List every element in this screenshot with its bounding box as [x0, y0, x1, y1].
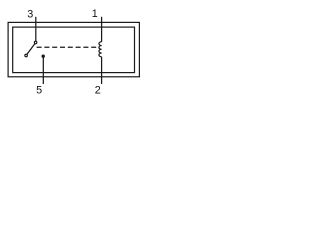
svg-text:5: 5: [36, 84, 42, 96]
actuator dashed link: [37, 46, 99, 48]
coil K1: [99, 42, 102, 57]
switch armature blade: [27, 44, 35, 55]
wire pin 2 lead: [101, 57, 103, 84]
relay case outer box: [8, 22, 139, 76]
relay case inner box: [13, 27, 135, 73]
wire pin 5 lead: [42, 56, 44, 84]
node pin 5 junction dot: [42, 55, 45, 58]
switch blade tip circle: [25, 54, 28, 57]
svg-text:3: 3: [27, 8, 33, 20]
svg-text:1: 1: [92, 8, 98, 20]
svg-text:2: 2: [95, 84, 101, 96]
wire pin 1 lead: [101, 17, 103, 42]
wire pin 3 lead: [35, 17, 37, 41]
switch fixed contact circle (pin 3): [34, 41, 37, 44]
